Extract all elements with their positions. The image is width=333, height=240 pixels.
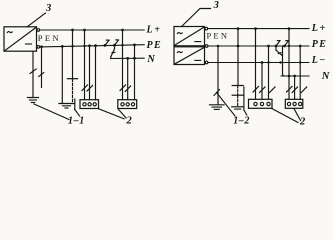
svg-text:N: N [321,71,330,82]
svg-text:3: 3 [213,0,219,11]
svg-text:L−: L− [311,55,327,66]
svg-text:N: N [146,54,155,65]
svg-text:1–2: 1–2 [233,115,250,126]
svg-text:PEN: PEN [38,33,61,43]
svg-text:2: 2 [299,117,306,128]
svg-text:PE: PE [147,40,163,51]
svg-text:L+: L+ [146,25,162,36]
svg-text:2: 2 [126,116,133,127]
svg-text:PEN: PEN [207,30,230,40]
svg-text:L+: L+ [311,23,327,34]
svg-text:3: 3 [45,3,51,14]
svg-text:1–1: 1–1 [68,116,85,127]
svg-text:PE: PE [312,39,328,50]
